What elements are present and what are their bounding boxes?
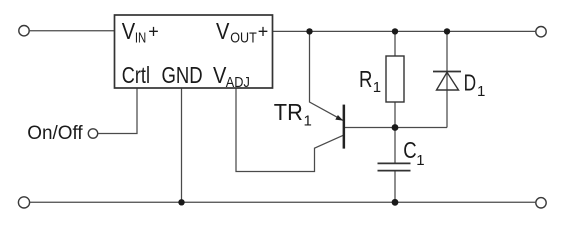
svg-text:+: + (258, 21, 269, 41)
svg-text:1: 1 (416, 152, 424, 169)
svg-text:1: 1 (304, 112, 312, 129)
svg-text:Crtl: Crtl (122, 62, 150, 88)
svg-text:On/Off: On/Off (27, 123, 83, 144)
svg-text:+: + (148, 21, 159, 41)
svg-text:V: V (122, 18, 136, 44)
svg-text:TR: TR (274, 99, 303, 125)
svg-text:V: V (216, 18, 230, 44)
svg-text:GND: GND (162, 62, 203, 88)
svg-text:R: R (359, 66, 372, 92)
svg-text:IN: IN (135, 30, 146, 47)
svg-text:C: C (403, 137, 416, 163)
svg-text:1: 1 (477, 83, 485, 100)
svg-text:D: D (464, 70, 477, 96)
svg-text:OUT: OUT (230, 30, 256, 47)
svg-text:ADJ: ADJ (226, 74, 250, 91)
svg-text:1: 1 (373, 79, 381, 96)
